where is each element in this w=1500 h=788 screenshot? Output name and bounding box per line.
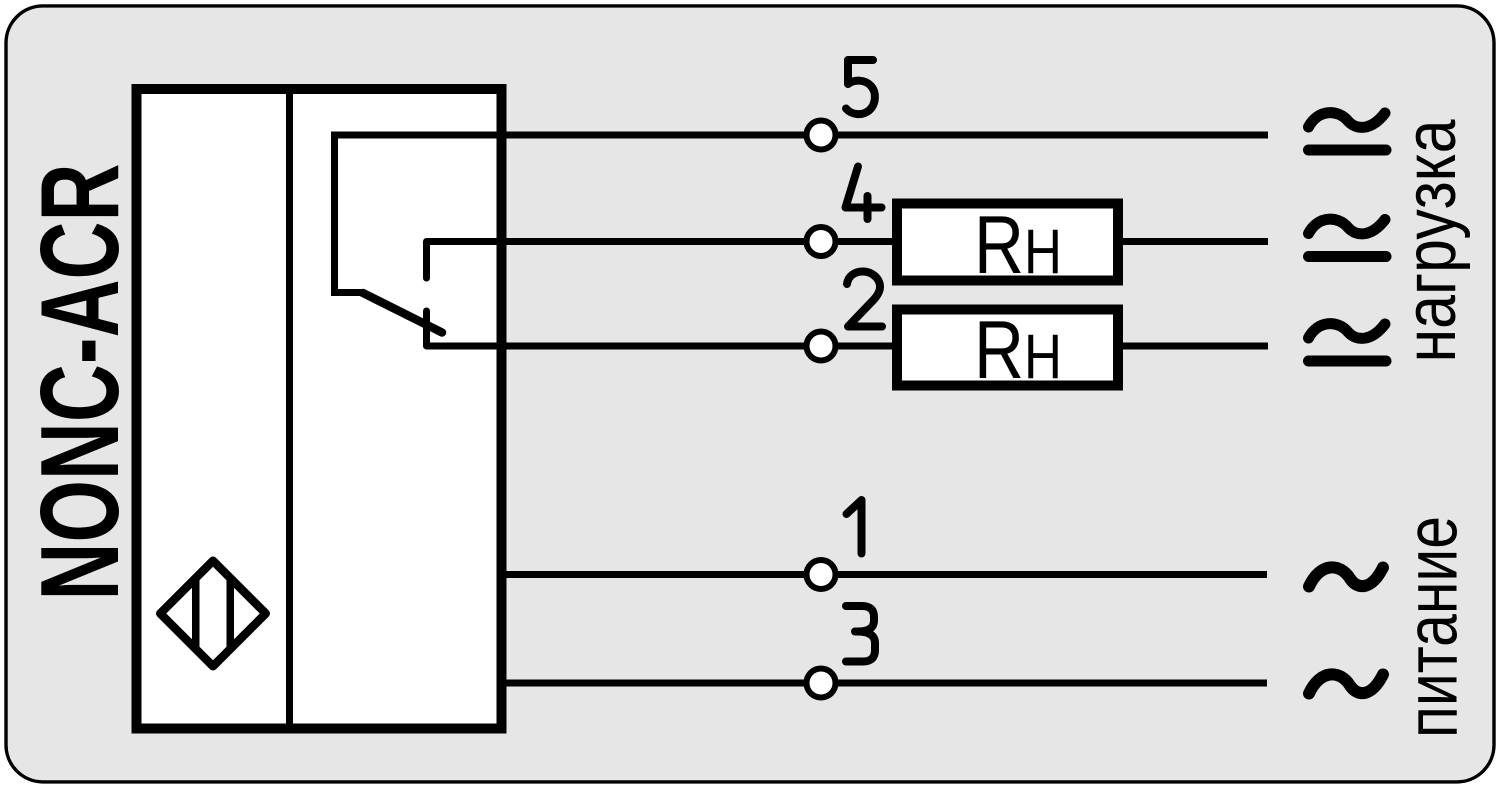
pin number 4	[846, 167, 882, 220]
svg-text:нагрузка: нагрузка	[1391, 119, 1471, 363]
wire pin 4 (right of resistor)	[1118, 238, 1268, 245]
terminal 2	[807, 332, 836, 361]
NC contact stub pin 4	[423, 242, 430, 279]
svg-text:питание: питание	[1393, 516, 1473, 738]
AC load symbol line 4	[1309, 219, 1387, 256]
pin number 3	[846, 606, 875, 662]
proximity sensor symbol	[160, 561, 266, 667]
resistor RH2	[897, 310, 1118, 386]
wire pin 4 (left of resistor)	[427, 238, 898, 245]
AC load symbol line 5	[1309, 113, 1387, 150]
AC load symbol line 2	[1309, 324, 1387, 361]
wire pin 2 (left of resistor)	[427, 343, 898, 350]
terminal 3	[807, 669, 836, 698]
terminal 1	[807, 560, 836, 589]
svg-text:NONC-ACR: NONC-ACR	[18, 164, 142, 601]
wire pin 5	[331, 132, 1268, 139]
terminal 4	[807, 227, 836, 256]
wire pin 3	[506, 680, 1267, 687]
resistor RH1	[897, 204, 1118, 281]
AC supply symbol line 3	[1309, 674, 1383, 693]
pin number 5	[846, 60, 875, 114]
terminal 5	[807, 121, 836, 150]
switch common pole wire	[335, 135, 362, 293]
pin number 1	[847, 500, 862, 554]
pin number 2	[847, 271, 882, 326]
sensor body divider	[286, 89, 293, 728]
sensor body U1	[137, 89, 502, 729]
NO contact stub pin 2	[423, 311, 430, 346]
wire pin 2 (right of resistor)	[1118, 343, 1268, 350]
wire pin 1	[506, 571, 1267, 578]
switch blade	[363, 293, 442, 333]
AC supply symbol line 1	[1309, 567, 1383, 586]
